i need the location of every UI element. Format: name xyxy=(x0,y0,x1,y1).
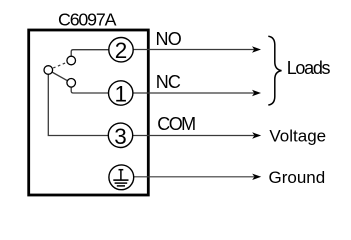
arrowhead NO xyxy=(252,46,261,52)
svg-text:NC: NC xyxy=(156,72,181,92)
svg-text:2: 2 xyxy=(115,38,128,63)
switch pole to NC contact xyxy=(48,70,71,83)
svg-text:C6097A: C6097A xyxy=(58,10,117,30)
svg-text:Voltage: Voltage xyxy=(269,127,326,146)
brace loads group xyxy=(268,36,281,105)
switch NO contact xyxy=(67,56,76,65)
terminal 1 xyxy=(109,81,133,107)
terminal 3 xyxy=(108,123,132,149)
wire switch common to terminal 3 xyxy=(48,70,109,136)
arrowhead ground xyxy=(252,174,261,180)
device outline xyxy=(29,30,149,195)
svg-text:1: 1 xyxy=(114,82,127,107)
wire NC output xyxy=(133,92,254,94)
wire ground output xyxy=(134,176,255,178)
wire COM output xyxy=(133,135,254,137)
wire NO output xyxy=(133,49,254,51)
switch NC contact xyxy=(67,79,76,88)
terminal 2 xyxy=(109,38,133,64)
arrowhead NC xyxy=(252,90,261,96)
svg-text:Ground: Ground xyxy=(269,168,326,187)
svg-text:3: 3 xyxy=(114,124,127,149)
wire switch NO contact to terminal 2 xyxy=(71,50,109,60)
switch actuator dashed line xyxy=(48,61,71,71)
svg-text:Loads: Loads xyxy=(287,58,331,78)
switch common pole contact xyxy=(44,66,53,75)
svg-text:COM: COM xyxy=(157,114,195,134)
ground terminal xyxy=(109,165,134,190)
arrowhead COM xyxy=(252,132,261,138)
wire switch NC contact to terminal 1 xyxy=(71,83,109,93)
svg-text:NO: NO xyxy=(156,29,182,49)
